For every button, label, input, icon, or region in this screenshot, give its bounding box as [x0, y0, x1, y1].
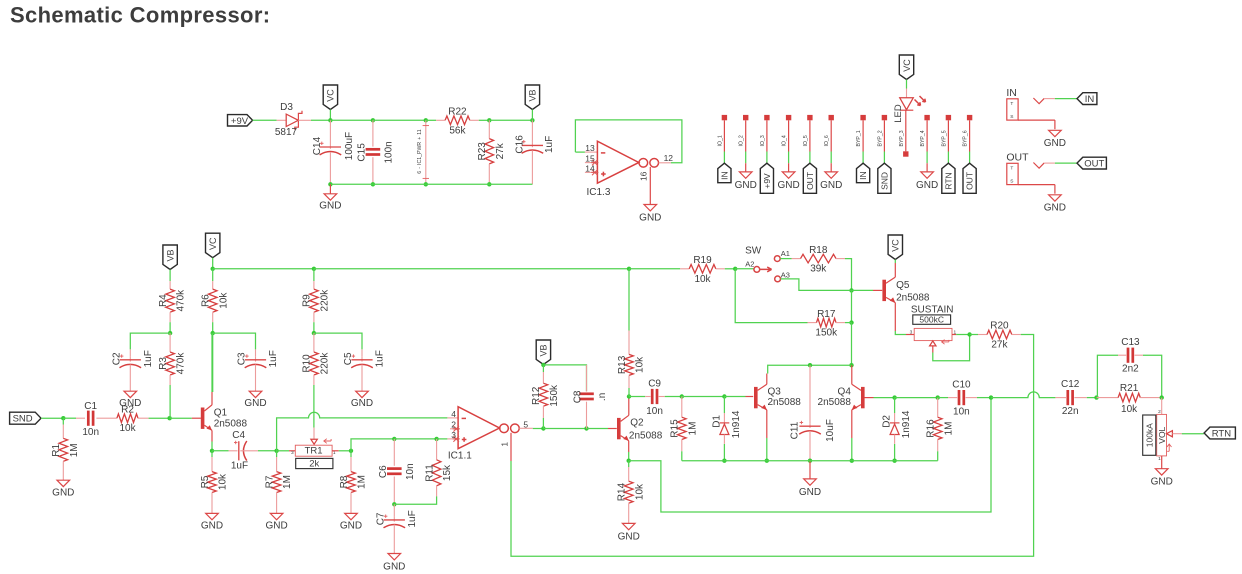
- svg-text:2n2: 2n2: [1122, 364, 1139, 375]
- resistor R10: [302, 333, 331, 385]
- potentiometer VOL 100kA: [1143, 398, 1182, 469]
- svg-text:R18: R18: [809, 245, 828, 256]
- label SND: [878, 163, 891, 193]
- junction: [850, 459, 854, 463]
- label IN: [1077, 93, 1097, 105]
- wire: [894, 444, 896, 461]
- wire ground rail: [330, 183, 532, 185]
- wire R10 to TR1 wiper: [313, 385, 315, 428]
- resistor R6: [201, 281, 230, 322]
- wire: [682, 396, 725, 398]
- wire Q2 collector: [628, 397, 630, 416]
- ground: [1151, 469, 1173, 488]
- svg-text:GND: GND: [1044, 202, 1066, 213]
- ground: [340, 513, 362, 531]
- svg-text:GND: GND: [735, 180, 757, 191]
- svg-text:BYP_4: BYP_4: [920, 130, 926, 146]
- svg-text:10uF: 10uF: [825, 419, 836, 442]
- wire Q5 collector: [894, 263, 896, 277]
- wire: [895, 397, 938, 399]
- ground: [201, 513, 223, 531]
- wire: [851, 323, 853, 366]
- svg-text:BYP_1: BYP_1: [856, 130, 862, 146]
- svg-text:GND: GND: [799, 487, 821, 498]
- junction: [967, 332, 971, 336]
- resistor R5: [211, 451, 213, 457]
- svg-text:6 - IC1_PWR + 11: 6 - IC1_PWR + 11: [417, 129, 423, 174]
- wire: [665, 396, 682, 398]
- wire Q1 collector: [211, 392, 213, 405]
- svg-text:GND: GND: [201, 521, 223, 532]
- capacitor C9: [646, 379, 663, 417]
- wire C13 loop: [1097, 355, 1119, 397]
- junction: [371, 182, 375, 186]
- svg-text:OUT: OUT: [1084, 159, 1104, 170]
- svg-text:IO_4: IO_4: [782, 135, 788, 146]
- wire C3 branch: [213, 333, 256, 349]
- LED LED1: [893, 89, 926, 152]
- wire: [587, 428, 609, 430]
- label OUT: [963, 163, 976, 193]
- wire: [329, 110, 331, 121]
- svg-text:2: 2: [1158, 409, 1161, 415]
- wire: [313, 322, 315, 333]
- junction: [168, 331, 172, 335]
- capacitor C13: [1118, 354, 1126, 356]
- svg-text:R9: R9: [302, 294, 313, 307]
- ground: [799, 479, 821, 498]
- ground: [265, 513, 287, 531]
- svg-text:S: S: [1010, 114, 1013, 120]
- svg-text:LED: LED: [893, 104, 904, 123]
- svg-text:IO_1: IO_1: [717, 135, 723, 146]
- junction: [627, 459, 631, 463]
- ground: [1044, 195, 1066, 214]
- wire: [437, 438, 448, 440]
- resistor R21: [1097, 383, 1162, 415]
- svg-text:BYP_5: BYP_5: [941, 130, 947, 146]
- wire: [628, 388, 630, 397]
- svg-text:Q3: Q3: [768, 387, 782, 398]
- value box 2k: [296, 458, 333, 468]
- wire: [723, 444, 725, 461]
- wire A3: [781, 279, 874, 291]
- wire R17 branch: [735, 269, 807, 323]
- svg-text:R15: R15: [670, 419, 681, 438]
- svg-text:C7: C7: [375, 512, 386, 525]
- svg-text:C12: C12: [1061, 379, 1080, 390]
- svg-text:3: 3: [910, 329, 913, 335]
- svg-text:IN: IN: [1085, 94, 1095, 105]
- junction: [584, 426, 588, 430]
- capacitor C15: [372, 120, 374, 146]
- svg-text:100uF: 100uF: [344, 132, 355, 160]
- svg-text:GND: GND: [1151, 477, 1173, 488]
- svg-text:R10: R10: [302, 354, 313, 373]
- wire Q1 emitter: [211, 430, 213, 441]
- wire emitter link: [629, 398, 991, 512]
- svg-text:10k: 10k: [634, 483, 645, 500]
- wire: [63, 417, 76, 419]
- capacitor C12: [1061, 379, 1080, 417]
- svg-text:SW: SW: [745, 245, 762, 256]
- wire: [894, 260, 896, 264]
- svg-text:VB: VB: [528, 89, 538, 101]
- svg-text:100kA: 100kA: [1144, 423, 1154, 447]
- pad IO_1: [717, 115, 727, 163]
- svg-text:R16: R16: [926, 419, 937, 438]
- label OUT: [1077, 157, 1106, 169]
- ground: [1044, 130, 1066, 149]
- svg-text:R1: R1: [51, 443, 62, 456]
- resistor R9: [302, 281, 331, 322]
- junction: [487, 182, 491, 186]
- capacitor C7: [393, 504, 395, 517]
- svg-text:GND: GND: [319, 200, 341, 211]
- junction: [849, 363, 853, 367]
- junction: [765, 459, 769, 463]
- capacitor C2: [111, 350, 154, 368]
- wire pin 16: [649, 167, 651, 205]
- supply VC: [206, 233, 220, 258]
- wire: [258, 450, 277, 452]
- wire Q5 emitter: [894, 303, 896, 331]
- wire inverting input row: [277, 412, 448, 451]
- svg-text:1M: 1M: [282, 475, 293, 489]
- svg-text:IO_2: IO_2: [739, 135, 745, 146]
- pad IO_2: [739, 115, 749, 163]
- junction: [328, 182, 332, 186]
- junction: [371, 118, 375, 122]
- junction: [808, 363, 812, 367]
- svg-text:1: 1: [953, 329, 956, 335]
- wire: [681, 451, 683, 460]
- junction: [424, 118, 428, 122]
- svg-text:2n5088: 2n5088: [629, 430, 663, 441]
- svg-text:GND: GND: [1044, 138, 1066, 149]
- label SND: [10, 412, 41, 424]
- diode D1: [711, 410, 742, 444]
- svg-text:1n914: 1n914: [731, 410, 742, 438]
- junction: [680, 394, 684, 398]
- svg-text:C11: C11: [790, 421, 801, 439]
- junction: [936, 395, 940, 399]
- junction: [274, 449, 278, 453]
- wire: [938, 397, 948, 399]
- diode D2: [882, 410, 913, 444]
- junction: [530, 118, 534, 122]
- svg-text:39k: 39k: [810, 264, 827, 275]
- svg-text:D3: D3: [280, 102, 293, 113]
- svg-text:Q4: Q4: [838, 387, 852, 398]
- svg-text:D1: D1: [711, 415, 722, 428]
- transistor Q3: [754, 384, 801, 410]
- wire: [41, 417, 63, 419]
- svg-text:1uF: 1uF: [544, 136, 555, 153]
- capacitor C12: [1055, 397, 1066, 399]
- svg-text:VB: VB: [165, 249, 175, 261]
- svg-text:GND: GND: [244, 398, 266, 409]
- switch SW: [745, 245, 790, 281]
- resistor R14: [628, 461, 630, 467]
- wire: [1182, 433, 1204, 435]
- pad BYP_6: [963, 115, 973, 163]
- junction: [211, 267, 215, 271]
- ground: [119, 391, 141, 409]
- capacitor C8: [586, 365, 588, 392]
- svg-text:10k: 10k: [119, 423, 136, 434]
- label IN: [718, 163, 731, 183]
- resistor R3: [158, 333, 187, 385]
- wire Q3 base lead: [746, 396, 754, 398]
- capacitor C16: [531, 120, 533, 142]
- capacitor C1: [76, 417, 85, 419]
- supply VB: [163, 245, 177, 270]
- svg-text:1M: 1M: [357, 475, 368, 489]
- wire: [970, 334, 978, 336]
- junction: [722, 459, 726, 463]
- svg-text:BYP_6: BYP_6: [963, 130, 969, 146]
- svg-text:C5: C5: [343, 352, 354, 365]
- svg-text:150k: 150k: [815, 328, 838, 339]
- wire: [926, 163, 928, 172]
- ground: [916, 172, 938, 191]
- svg-text:16: 16: [638, 171, 648, 181]
- junction: [849, 320, 853, 324]
- wire C2 branch: [130, 333, 170, 349]
- svg-text:1uF: 1uF: [407, 510, 418, 527]
- transistor Q2: [617, 415, 663, 441]
- junction: [627, 267, 631, 271]
- svg-text:R7: R7: [264, 475, 275, 488]
- resistor R7: [276, 451, 278, 457]
- svg-text:R13: R13: [617, 355, 628, 374]
- ground: [319, 194, 341, 212]
- svg-text:D2: D2: [882, 415, 893, 428]
- svg-text:GND: GND: [639, 212, 661, 223]
- svg-text:GND: GND: [820, 180, 842, 191]
- svg-text:R4: R4: [158, 294, 169, 307]
- svg-text:IO_5: IO_5: [803, 135, 809, 146]
- wire A1: [780, 258, 791, 260]
- wire: [149, 417, 170, 419]
- junction: [627, 394, 631, 398]
- svg-text:R21: R21: [1120, 383, 1139, 394]
- pad BYP_4: [920, 115, 930, 163]
- resistor R15: [681, 397, 683, 418]
- svg-text:GND: GND: [618, 532, 640, 543]
- svg-text:2k: 2k: [309, 458, 319, 469]
- svg-text:BYP_2: BYP_2: [877, 130, 883, 146]
- wire: [314, 268, 629, 270]
- svg-text:OUT: OUT: [965, 172, 975, 190]
- wire: [311, 119, 330, 121]
- svg-text:GND: GND: [340, 521, 362, 532]
- wire Q3 emitter: [766, 410, 768, 438]
- svg-text:IN: IN: [1006, 87, 1017, 99]
- junction: [312, 267, 316, 271]
- resistor R1: [62, 418, 64, 424]
- svg-text:Q2: Q2: [630, 417, 644, 428]
- junction: [210, 449, 214, 453]
- pad BYP_3: [899, 130, 909, 156]
- pad IO_6: [824, 115, 834, 163]
- svg-text:10k: 10k: [635, 356, 646, 373]
- svg-text:10n: 10n: [953, 407, 970, 418]
- svg-text:GND: GND: [52, 488, 74, 499]
- svg-text:SND: SND: [880, 172, 890, 190]
- svg-text:220k: 220k: [320, 289, 331, 312]
- svg-text:2n5088: 2n5088: [214, 419, 248, 430]
- svg-text:GND: GND: [777, 180, 799, 191]
- wire C8 branch: [543, 365, 586, 392]
- label RTN: [942, 163, 955, 193]
- wire: [169, 385, 171, 418]
- wire Q1 base lead: [192, 417, 201, 419]
- ground: [351, 391, 373, 409]
- svg-text:C14: C14: [312, 136, 323, 155]
- svg-text:27k: 27k: [495, 142, 506, 159]
- wire feedback loop: [575, 120, 682, 163]
- trimmer TR1 2k: [289, 439, 339, 457]
- wire: [313, 269, 315, 281]
- svg-text:R22: R22: [448, 107, 467, 118]
- wire: [531, 150, 533, 184]
- wire: [1033, 392, 1035, 403]
- resistor R19: [680, 255, 725, 285]
- svg-text:10n: 10n: [646, 406, 663, 417]
- svg-text:C13: C13: [1121, 337, 1140, 348]
- wire Q4 emitter: [851, 410, 853, 438]
- junction: [312, 331, 316, 335]
- svg-text:1uF: 1uF: [375, 350, 386, 367]
- svg-text:10k: 10k: [218, 292, 229, 309]
- svg-text:1uF: 1uF: [143, 350, 154, 367]
- junction: [722, 394, 726, 398]
- svg-text:150k: 150k: [549, 384, 560, 407]
- svg-text:VOL: VOL: [1157, 426, 1167, 443]
- svg-text:R20: R20: [990, 321, 1009, 332]
- svg-text:R19: R19: [693, 255, 712, 266]
- wire: [253, 119, 277, 121]
- svg-text:S: S: [1010, 179, 1013, 185]
- wire Q4 base: [864, 397, 873, 399]
- wire: [531, 110, 533, 121]
- capacitor C10: [952, 380, 971, 418]
- junction: [424, 182, 428, 186]
- svg-text:GND: GND: [119, 398, 141, 409]
- wire Q2 base: [608, 428, 617, 430]
- connector OUT jack: [1006, 151, 1077, 193]
- power pin IC1_PWR: [417, 120, 429, 184]
- capacitor C15: [357, 141, 395, 163]
- svg-text:IO_3: IO_3: [760, 135, 766, 146]
- svg-text:470k: 470k: [176, 289, 187, 312]
- svg-text:10k: 10k: [218, 473, 229, 490]
- capacitor C2: [129, 349, 131, 356]
- wire output row: [533, 428, 544, 430]
- svg-text:15: 15: [585, 154, 595, 164]
- capacitor C5: [343, 350, 386, 368]
- wire: [845, 322, 852, 324]
- junction: [211, 331, 215, 335]
- junction: [167, 416, 171, 420]
- svg-text:R5: R5: [200, 475, 211, 488]
- svg-text:GND: GND: [265, 521, 287, 532]
- svg-text:1: 1: [1158, 456, 1161, 462]
- wire: [542, 364, 544, 366]
- svg-text:1M: 1M: [943, 422, 954, 436]
- wire: [212, 322, 214, 333]
- wire noninverting input row: [351, 439, 394, 451]
- svg-text:C1: C1: [84, 401, 97, 412]
- wire: [488, 164, 490, 184]
- svg-text:2n5088: 2n5088: [768, 397, 802, 408]
- transistor Q5: [882, 277, 930, 304]
- capacitor C6: [378, 463, 416, 480]
- svg-text:27k: 27k: [991, 340, 1008, 351]
- label +9V: [760, 163, 773, 193]
- svg-text:56k: 56k: [449, 125, 466, 136]
- wire: [906, 80, 908, 89]
- label +9V: [228, 115, 253, 126]
- wire: [1087, 397, 1097, 399]
- op-amp IC1.3: [585, 141, 673, 198]
- wire: [479, 119, 490, 121]
- wire: [629, 268, 680, 270]
- op-amp IC1.1: [447, 407, 532, 462]
- junction: [392, 502, 396, 506]
- wire: [745, 163, 747, 172]
- resistor R12: [542, 365, 544, 372]
- svg-text:2n5088: 2n5088: [818, 397, 852, 408]
- wire: [724, 396, 745, 398]
- wire: [170, 417, 192, 419]
- junction: [1094, 395, 1098, 399]
- svg-text:OUT: OUT: [805, 172, 815, 190]
- pad IO_5: [803, 115, 813, 163]
- supply VB: [525, 85, 539, 110]
- wire: [426, 119, 436, 121]
- resistor R20: [978, 321, 1021, 351]
- svg-text:A1: A1: [781, 249, 790, 258]
- svg-text:10n: 10n: [405, 463, 416, 480]
- ground: [618, 523, 640, 542]
- resistor R11: [436, 439, 438, 460]
- label RTN: [1204, 427, 1235, 439]
- wire bottom rail: [682, 460, 938, 462]
- svg-text:R14: R14: [617, 482, 628, 501]
- wire: [830, 163, 832, 172]
- supply VC: [888, 235, 902, 260]
- wire Q5 base: [873, 289, 882, 291]
- pad IO_3: [760, 115, 770, 163]
- svg-text:14: 14: [585, 164, 595, 174]
- wire C5 branch: [314, 333, 362, 349]
- resistor R17: [808, 309, 846, 339]
- diode D3 5817: [275, 102, 311, 138]
- resistor R2: [107, 404, 149, 434]
- resistor R13: [628, 269, 630, 331]
- svg-text:C3: C3: [237, 352, 248, 365]
- svg-text:12: 12: [664, 153, 674, 163]
- svg-text:1n914: 1n914: [901, 410, 912, 438]
- svg-text:Q5: Q5: [896, 280, 910, 291]
- capacitor C7: [375, 510, 418, 528]
- junction: [349, 449, 353, 453]
- junction: [434, 437, 438, 441]
- supply VC: [323, 85, 337, 110]
